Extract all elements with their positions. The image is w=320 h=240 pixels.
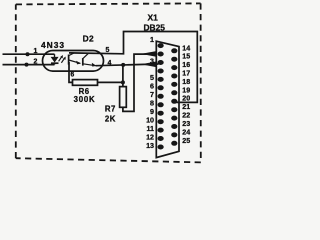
svg-text:8: 8 [150,100,154,108]
svg-text:DB25: DB25 [144,23,166,33]
svg-text:18: 18 [182,78,190,86]
pin number labels 14-25 [182,44,190,145]
wire input 1 [3,53,55,55]
DB25 pins right column 14-25 [171,48,177,146]
svg-text:1: 1 [34,48,38,55]
resistor R6 [73,80,98,86]
pin number labels 1-13 [146,36,154,150]
wire input 2 [3,64,55,66]
node input 2 [25,63,29,67]
svg-text:22: 22 [182,112,190,120]
svg-text:13: 13 [146,142,154,150]
svg-text:25: 25 [182,137,190,145]
phototransistor Q1 (darlington input) [69,53,81,65]
node emitter junction [121,63,125,67]
wire emitter to pin 3 [96,64,159,66]
LED inside opto [51,54,59,64]
svg-text:19: 19 [182,86,190,94]
svg-text:24: 24 [182,128,190,136]
svg-text:15: 15 [182,53,190,61]
svg-text:2: 2 [34,58,38,65]
dashed enclosure border [16,3,201,162]
svg-text:X1: X1 [148,13,159,23]
wire base pin 6 [69,62,73,82]
node R6/R7 junction [121,80,125,84]
svg-text:6: 6 [150,83,154,91]
connector X1 DB25 outline [156,41,179,157]
svg-text:12: 12 [146,133,154,141]
svg-text:9: 9 [150,108,154,116]
svg-text:4N33: 4N33 [41,40,65,50]
arrow into pin 3 [141,62,156,67]
svg-text:21: 21 [182,103,190,111]
phototransistor Q2 (darlington output) [83,53,96,65]
wire R7 bottom to pin 2 riser [123,54,157,111]
wire collector rail to pin 5 [69,32,197,103]
svg-text:D2: D2 [83,33,95,43]
wire emitter node down to R7 [122,65,124,87]
svg-text:6: 6 [70,71,74,78]
svg-text:23: 23 [182,120,190,128]
node input 1 [26,52,30,56]
svg-text:5: 5 [150,74,154,82]
svg-text:300K: 300K [74,95,96,104]
DB25 pins left column 1-13 [158,43,164,149]
LED light arrows [59,55,66,63]
svg-text:20: 20 [182,95,190,103]
svg-text:3: 3 [150,57,154,65]
svg-text:17: 17 [182,70,190,78]
svg-text:5: 5 [106,47,110,54]
svg-text:R7: R7 [105,104,116,113]
wire R6 to junction [98,81,123,83]
optocoupler U1 4N33 body [43,51,104,72]
svg-text:2K: 2K [105,115,116,124]
svg-text:16: 16 [182,61,190,69]
arrow into pin 2 [141,51,156,56]
svg-text:11: 11 [147,125,155,133]
resistor R7 [120,87,127,108]
svg-text:7: 7 [150,91,154,99]
svg-text:10: 10 [146,116,154,124]
svg-text:14: 14 [182,44,190,52]
svg-text:1: 1 [150,36,154,44]
svg-text:4: 4 [108,60,112,67]
